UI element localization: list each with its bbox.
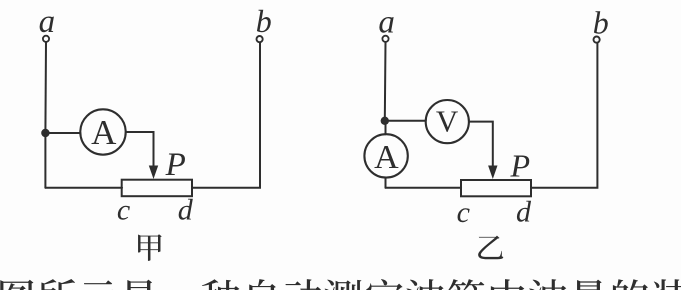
junction node (right circuit) xyxy=(381,117,389,125)
rheostat body cd (left circuit) xyxy=(122,180,192,197)
wire junction down to ammeter (right) xyxy=(385,125,387,134)
wire voltmeter to wiper corner (right) xyxy=(469,122,493,167)
label jia (caption of left figure) xyxy=(138,234,162,261)
label yi (caption of right figure) xyxy=(478,236,503,260)
svg-text:c: c xyxy=(117,194,130,227)
wire rheostat d to terminal b xyxy=(192,43,260,188)
terminal b (right circuit) xyxy=(594,37,600,43)
terminal b (left circuit) xyxy=(257,36,263,42)
svg-text:c: c xyxy=(457,196,470,229)
wire rheostat d to terminal b (right) xyxy=(531,43,597,188)
svg-text:P: P xyxy=(510,147,531,183)
wire ammeter to bottom corner (right) xyxy=(385,178,387,188)
wiper arrow P (left) xyxy=(150,166,158,178)
wire ammeter to wiper corner xyxy=(126,132,154,167)
caption text (partially clipped at page bottom) xyxy=(0,279,681,290)
svg-text:A: A xyxy=(91,113,117,152)
wire a to junction xyxy=(44,42,47,133)
ammeter A (left circuit) xyxy=(80,109,125,154)
svg-text:d: d xyxy=(178,194,194,227)
wire junction to voltmeter xyxy=(389,120,426,122)
svg-text:A: A xyxy=(374,139,399,176)
svg-text:d: d xyxy=(516,195,532,228)
wiper arrow P (right) xyxy=(489,166,497,178)
bottom wire to rheostat terminal c xyxy=(45,187,122,189)
wire junction to ammeter xyxy=(50,132,81,134)
svg-text:a: a xyxy=(39,4,56,40)
junction node (left circuit) xyxy=(41,129,49,137)
voltmeter V (right circuit) xyxy=(426,100,469,143)
terminal a (right circuit) xyxy=(382,36,388,42)
rheostat body cd (right circuit) xyxy=(461,180,531,196)
wire junction down to bottom-left corner xyxy=(44,133,46,188)
svg-text:b: b xyxy=(256,3,272,39)
wire a to junction (right) xyxy=(384,42,387,121)
bottom wire to rheostat c (right) xyxy=(386,187,462,189)
svg-text:b: b xyxy=(593,4,609,40)
svg-text:P: P xyxy=(165,147,186,183)
terminal a (left circuit) xyxy=(43,36,49,42)
ammeter A (right circuit) xyxy=(364,134,407,177)
svg-text:V: V xyxy=(436,104,459,139)
